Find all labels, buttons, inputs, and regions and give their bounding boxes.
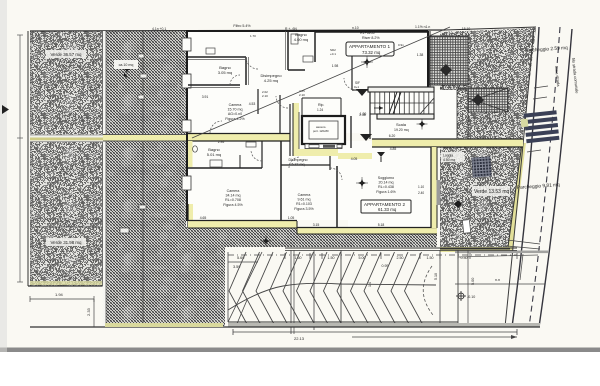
garden right-top stipple <box>440 28 536 143</box>
label verde 36.57 <box>46 50 86 58</box>
interior wall: bagno top-left divider <box>188 57 246 85</box>
svg-text:Filtro 5.4%: Filtro 5.4% <box>233 24 251 28</box>
disimpegno-elevator wall <box>289 104 291 156</box>
north star soggiorno <box>356 177 368 189</box>
svg-text:APPARTAMENTO 1: APPARTAMENTO 1 <box>349 44 390 49</box>
yellow wall right vertical (soggiorno east) <box>418 147 441 228</box>
road vertical annotations <box>554 58 580 95</box>
label 5.60 3.59 <box>228 256 258 269</box>
top boundary tiny annotations <box>152 25 430 31</box>
tiny dims top strip <box>250 34 404 98</box>
yellow wall around elevator <box>293 103 372 159</box>
bottom gray bar <box>7 348 600 353</box>
atrio wall right of elevator <box>350 116 352 148</box>
svg-text:73.32 mq: 73.32 mq <box>362 50 381 55</box>
svg-text:1.05: 1.05 <box>288 216 295 220</box>
scala label <box>394 122 409 132</box>
svg-text:4.65: 4.65 <box>200 216 207 220</box>
label camera 9.61 <box>294 193 314 211</box>
parking chevron hatch <box>229 252 424 326</box>
stair 1.38 label <box>359 113 366 117</box>
svg-text:1.4: 1.4 <box>368 282 372 287</box>
garden verde 13.53 stipple <box>440 143 526 252</box>
label camera 15.70 <box>225 103 245 121</box>
svg-text:AG=0.n0: AG=0.n0 <box>228 112 242 116</box>
label filtro top <box>233 24 251 28</box>
left arrow marker <box>2 105 9 114</box>
label bagno 4.00 <box>294 32 308 42</box>
bottom dim 22.13 <box>233 329 517 341</box>
interior wall: camera 34 east <box>281 141 337 228</box>
label bagno 5.01 <box>207 147 221 157</box>
svg-text:Figura 4.5%: Figura 4.5% <box>223 203 243 207</box>
interior wall hairlines <box>188 31 286 88</box>
interior wall: bagno 5.01 <box>188 141 262 168</box>
courtyard survey line <box>120 31 147 326</box>
vertical dim 5.00 <box>468 250 475 327</box>
svg-text:Rip.: Rip. <box>318 103 324 107</box>
building east wall upper <box>427 31 429 90</box>
svg-text:34.14 mq: 34.14 mq <box>226 194 241 198</box>
door arc 3 <box>210 121 222 133</box>
sif drain label <box>354 81 360 89</box>
white gap line between gardens and courtyard <box>103 31 107 326</box>
yellow wall building mid horizontal left <box>188 134 290 142</box>
svg-text:+0.1: +0.1 <box>330 52 336 56</box>
svg-text:6.20: 6.20 <box>389 134 396 138</box>
door arc 7 <box>330 168 342 180</box>
tree symbol diamond top <box>440 64 452 76</box>
svg-text:61.33 mq: 61.33 mq <box>378 207 397 212</box>
road boundary solid line left <box>512 27 539 327</box>
svg-text:4.1n +0.1: 4.1n +0.1 <box>152 27 166 31</box>
svg-text:5.01 mq: 5.01 mq <box>207 152 221 157</box>
parking bottom edges <box>30 322 540 327</box>
svg-text:2.10: 2.10 <box>299 93 305 97</box>
small white marker <box>462 220 470 234</box>
svg-text:Camera: Camera <box>298 193 311 197</box>
svg-text:4.53: 4.53 <box>249 102 256 106</box>
survey point circle <box>456 291 475 301</box>
parking vertical dim lines <box>291 250 538 334</box>
garden verde 36.57 top-left stipple <box>30 31 103 138</box>
terrace fine grid <box>428 36 468 85</box>
svg-text:2.33: 2.33 <box>86 307 91 316</box>
svg-text:19.20 mq: 19.20 mq <box>394 128 409 132</box>
pergola grid block with diagonals <box>440 88 508 112</box>
garden verde 31.98 bottom-left stipple <box>30 141 103 286</box>
interior wall: appartamento1 hall <box>352 49 372 90</box>
north star courtyard bottom <box>261 236 272 247</box>
svg-text:15.70 mq: 15.70 mq <box>228 108 243 112</box>
left bottom dim 1.94 <box>30 292 94 302</box>
svg-text:3.05 mq: 3.05 mq <box>218 70 232 75</box>
room interiors <box>188 32 458 227</box>
door arc 2 <box>276 96 288 108</box>
svg-text:1.38: 1.38 <box>417 53 424 57</box>
svg-text:n.10: n.10 <box>352 26 359 30</box>
label verde 31.98 <box>46 238 86 246</box>
loggia label <box>441 152 464 208</box>
dashed property line across parking <box>228 254 517 256</box>
svg-text:RL=0.438: RL=0.438 <box>378 185 394 189</box>
lot top boundary <box>30 27 536 31</box>
svg-text:4.25 mq: 4.25 mq <box>264 78 278 83</box>
dark grate patch <box>471 156 491 177</box>
road right solid line <box>539 29 572 327</box>
svg-text:5.37 mq: 5.37 mq <box>292 163 305 167</box>
svg-text:Loggia: Loggia <box>443 154 453 158</box>
svg-text:1.10: 1.10 <box>418 185 424 189</box>
staircase <box>368 87 434 119</box>
svg-text:4.85: 4.85 <box>390 147 397 151</box>
parcheggio 9.81 label <box>517 182 561 191</box>
appartamento 2 label box <box>361 200 411 213</box>
svg-text:4.00 mq: 4.00 mq <box>294 37 308 42</box>
svg-text:0+1: 0+1 <box>354 85 359 89</box>
north star scala <box>417 119 428 130</box>
svg-text:Figura 4.2%: Figura 4.2% <box>225 117 245 121</box>
svg-text:n.n: n.n <box>495 278 500 282</box>
svg-text:4.50 mq: 4.50 mq <box>443 158 455 162</box>
courtyard small label <box>114 60 138 78</box>
svg-text:3.15: 3.15 <box>313 223 320 227</box>
svg-text:1.50: 1.50 <box>427 256 434 260</box>
right dim arrow <box>455 278 545 284</box>
svg-text:Riser 8.2%: Riser 8.2% <box>362 36 380 40</box>
yellow wall west vertical <box>188 204 193 228</box>
svg-text:1.50: 1.50 <box>328 256 335 260</box>
svg-text:5.10: 5.10 <box>434 273 438 280</box>
sidewalk weave band under building <box>225 228 437 247</box>
svg-text:Scala: Scala <box>396 122 407 127</box>
yellow wall horizontal main (garden crossing) <box>30 135 188 143</box>
svg-text:1.24: 1.24 <box>317 108 323 112</box>
svg-text:9.61 mq: 9.61 mq <box>298 198 311 202</box>
parking area top edge <box>285 248 517 251</box>
parcheggio 2.59 label <box>525 45 569 54</box>
svg-text:Verde 36.57 mq: Verde 36.57 mq <box>51 52 83 57</box>
courtyard weave bottom block <box>186 227 225 326</box>
courtyard weave vertical strip <box>105 31 186 326</box>
door arc 8 <box>230 75 240 85</box>
label soggiorno <box>376 176 396 194</box>
svg-text:port. 120x80: port. 120x80 <box>313 129 329 133</box>
annotation above app1 <box>360 31 380 40</box>
door arc 1 <box>246 57 258 69</box>
svg-text:R1=0.103: R1=0.103 <box>296 202 312 206</box>
building west wall <box>182 31 191 221</box>
svg-text:Verde 13.53 mq: Verde 13.53 mq <box>474 189 510 195</box>
garden bottom edge <box>28 281 103 286</box>
svg-text:1.1% n1.n: 1.1% n1.n <box>415 25 430 29</box>
label disimpegno 4.25 <box>260 73 282 83</box>
svg-text:18.10: 18.10 <box>462 27 471 31</box>
vertical dim line mid <box>293 250 295 334</box>
elevator shaft <box>302 116 345 149</box>
svg-text:4.05: 4.05 <box>351 157 358 161</box>
yellow wall south (bottom of building) <box>188 221 437 235</box>
svg-text:1.70: 1.70 <box>250 34 256 38</box>
parking stripes symbol <box>521 110 560 143</box>
door arc 6 <box>344 78 356 90</box>
svg-text:R1+G/05: R1+G/05 <box>360 31 374 35</box>
svg-text:Figura 1.6%: Figura 1.6% <box>376 190 396 194</box>
svg-text:1.20: 1.20 <box>360 112 367 116</box>
bottom dim second <box>352 335 517 339</box>
bathroom fixtures <box>193 34 313 167</box>
lot boundary along road <box>505 27 534 327</box>
left bottom dim 2.33 <box>86 299 94 327</box>
svg-text:ca.10 mq: ca.10 mq <box>119 63 134 67</box>
svg-text:3.91: 3.91 <box>202 95 209 99</box>
rip closet above elevator <box>302 98 341 116</box>
north star app1 <box>361 56 373 68</box>
yellow wall building mid horizontal right <box>372 139 523 147</box>
svg-text:R +- 6N: R +- 6N <box>285 27 297 31</box>
section line diagonal <box>192 27 450 138</box>
left dim line <box>17 35 23 282</box>
wall dimension numbers <box>200 27 471 227</box>
svg-text:1.98: 1.98 <box>332 64 339 68</box>
svg-text:2.10: 2.10 <box>262 94 268 98</box>
svg-text:Camera: Camera <box>227 189 240 193</box>
drain symbol 3 <box>377 152 385 162</box>
svg-text:RL=0.708: RL=0.708 <box>225 198 241 202</box>
svg-text:20.14 mq: 20.14 mq <box>379 181 394 185</box>
interior wall: camera9/disimpegno <box>281 156 330 170</box>
door arc 4 <box>251 150 262 161</box>
label disimpegno 5.37 <box>289 158 308 167</box>
building north wall <box>186 31 428 32</box>
svg-text:5.18: 5.18 <box>378 223 385 227</box>
turning dashed arc <box>423 266 433 315</box>
ramp fan lines <box>228 252 436 326</box>
svg-text:1.94: 1.94 <box>55 292 64 297</box>
drain symbol 2 <box>360 134 372 141</box>
svg-text:2.40: 2.40 <box>418 191 424 195</box>
stair hall walls <box>370 31 430 139</box>
svg-text:2.50: 2.50 <box>397 256 404 260</box>
svg-text:2.95: 2.95 <box>218 140 225 144</box>
interior wall: disimpegno verticals <box>258 89 280 133</box>
svg-text:Soggiorno: Soggiorno <box>378 176 394 180</box>
courtyard weave seam <box>186 228 188 326</box>
shaft hatched strip east of stairs <box>457 90 468 139</box>
label camera 34.14 <box>223 189 243 207</box>
interior wall: bagno 4.00 top box <box>288 31 315 70</box>
road dashed centerline <box>529 27 560 327</box>
svg-text:22.13: 22.13 <box>294 336 305 341</box>
svg-text:Figura 3.5%: Figura 3.5% <box>294 207 314 211</box>
north star courtyard <box>122 64 133 75</box>
door arc 5 <box>289 157 300 168</box>
road strip crossing ticks <box>455 86 548 280</box>
drain symbol 1 <box>356 89 368 96</box>
parking dim ticks <box>285 253 517 268</box>
yellow wall west vertical below band <box>188 141 193 167</box>
svg-text:0.9n: 0.9n <box>398 43 404 47</box>
appartamento 1 label box <box>346 42 394 56</box>
left gray strip <box>0 0 7 352</box>
svg-text:Camera: Camera <box>229 103 242 107</box>
svg-text:Verde 31.98 mq: Verde 31.98 mq <box>51 240 83 245</box>
lot left boundary double line <box>28 31 31 286</box>
label bagno 3.05 <box>218 65 232 75</box>
